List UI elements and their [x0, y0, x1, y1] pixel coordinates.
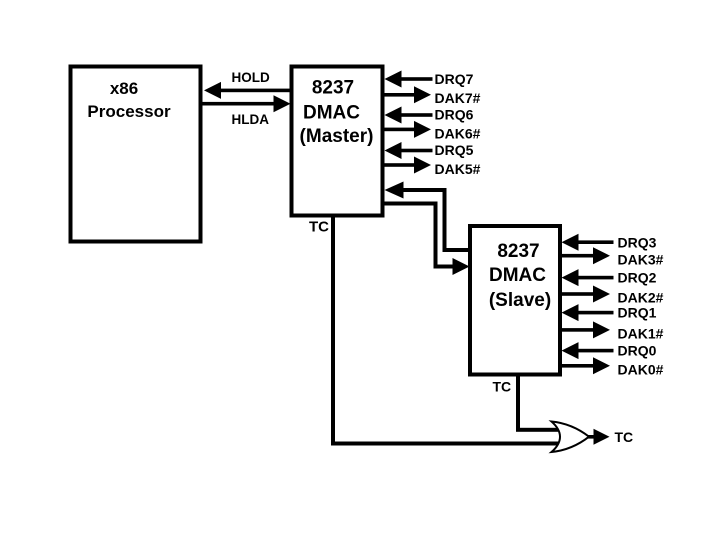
signal arrow DRQ1 (into slave) — [562, 304, 614, 321]
wire HRQ from slave to master DRQ4 (arrow into master) — [385, 182, 471, 253]
signal arrow DAK5# (out of master) — [382, 157, 431, 174]
block x86 Processor — [71, 67, 201, 242]
label TC (slave terminal count) — [493, 379, 512, 395]
wire master TC to OR gate — [331, 215, 559, 446]
label DRQ7 — [435, 71, 474, 87]
wire slave TC to OR gate — [516, 374, 558, 432]
svg-text:DRQ5: DRQ5 — [435, 142, 474, 158]
signal arrow DRQ7 (into master) — [385, 71, 433, 88]
svg-text:8237: 8237 — [312, 78, 354, 99]
signal arrow DAK3# (out of slave) — [559, 247, 610, 264]
label TC (OR output) — [615, 429, 634, 445]
svg-text:DRQ1: DRQ1 — [618, 305, 657, 321]
label TC (master terminal count) — [309, 219, 329, 236]
signal arrow DRQ2 (into slave) — [562, 269, 614, 286]
output arrow TC — [588, 429, 610, 445]
svg-text:Processor: Processor — [87, 102, 171, 121]
svg-text:DAK2#: DAK2# — [618, 290, 664, 306]
label DRQ3 — [618, 235, 657, 251]
svg-text:DRQ2: DRQ2 — [618, 270, 657, 286]
svg-text:(Master): (Master) — [300, 126, 374, 147]
svg-text:DAK1#: DAK1# — [618, 326, 664, 342]
block 8237 DMAC (Slave) — [470, 226, 560, 375]
label DAK2# — [618, 290, 664, 306]
label HOLD — [232, 70, 270, 85]
svg-text:HLDA: HLDA — [232, 112, 270, 127]
signal arrow DRQ6 (into master) — [385, 107, 433, 124]
svg-text:DAK7#: DAK7# — [435, 90, 481, 106]
svg-text:DAK0#: DAK0# — [618, 362, 664, 378]
svg-text:DRQ3: DRQ3 — [618, 235, 657, 251]
svg-text:DAK6#: DAK6# — [435, 126, 481, 142]
svg-text:(Slave): (Slave) — [489, 290, 551, 311]
label DAK0# — [618, 362, 664, 378]
svg-text:DRQ0: DRQ0 — [618, 343, 657, 359]
OR gate — [552, 422, 590, 453]
signal arrow DAK2# (out of slave) — [559, 286, 610, 303]
label DRQ1 — [618, 305, 657, 321]
label DAK3# — [618, 252, 664, 268]
label DRQ6 — [435, 107, 474, 123]
label DRQ5 — [435, 142, 474, 158]
signal arrow DAK1# (out of slave) — [559, 321, 610, 338]
signal arrow DAK7# (out of master) — [382, 86, 431, 103]
svg-text:DRQ6: DRQ6 — [435, 107, 474, 123]
signal arrow DAK6# (out of master) — [382, 121, 431, 138]
label DRQ0 — [618, 343, 657, 359]
svg-text:DAK3#: DAK3# — [618, 252, 664, 268]
svg-text:TC: TC — [493, 379, 512, 395]
wire DACK4 from master to slave HLDA (arrow into slave) — [382, 202, 470, 276]
label DAK7# — [435, 90, 481, 106]
svg-text:TC: TC — [309, 219, 329, 236]
signal arrow DAK0# (out of slave) — [559, 357, 610, 374]
label DRQ2 — [618, 270, 657, 286]
svg-text:DMAC: DMAC — [489, 265, 546, 286]
label DAK6# — [435, 126, 481, 142]
svg-text:x86: x86 — [110, 79, 138, 98]
label HLDA — [232, 112, 270, 127]
svg-text:8237: 8237 — [497, 241, 539, 262]
signal arrow DRQ0 (into slave) — [562, 342, 614, 359]
signal arrow HLDA (processor to master) — [203, 95, 291, 112]
svg-text:HOLD: HOLD — [232, 70, 270, 85]
block 8237 DMAC (Master) — [292, 67, 383, 216]
signal arrow DRQ5 (into master) — [385, 142, 433, 159]
label DAK5# — [435, 161, 481, 177]
svg-text:DMAC: DMAC — [303, 103, 360, 124]
svg-text:TC: TC — [615, 429, 634, 445]
label DAK1# — [618, 326, 664, 342]
signal arrow HOLD (master to processor) — [204, 82, 290, 99]
svg-text:DAK5#: DAK5# — [435, 161, 481, 177]
svg-text:DRQ7: DRQ7 — [435, 71, 474, 87]
signal arrow DRQ3 (into slave) — [562, 234, 614, 251]
